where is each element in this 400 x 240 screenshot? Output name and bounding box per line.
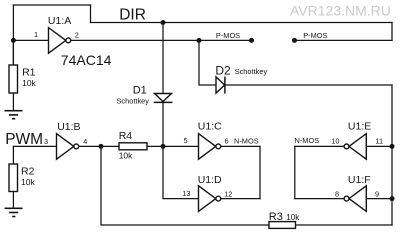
wire D2 cathode to right rail: [225, 84, 392, 86]
svg-text:U1:B: U1:B: [57, 121, 80, 133]
svg-text:U1:C: U1:C: [198, 121, 222, 133]
svg-text:10k: 10k: [21, 177, 35, 187]
wire R2 top drop: [12, 146, 14, 164]
wire R1 bottom to ground: [12, 93, 14, 111]
wire top-left horizontal: [13, 4, 90, 6]
resistor R4 body: [119, 143, 147, 150]
svg-text:N-MOS: N-MOS: [295, 136, 320, 145]
wire D2 drop from P-MOS node: [199, 40, 216, 85]
svg-text:6: 6: [225, 136, 229, 145]
wire R3 drop from U1:B output node: [101, 146, 269, 225]
node dot DIR / D1: [161, 20, 166, 25]
svg-text:74AC14: 74AC14: [61, 52, 112, 68]
inverter U1:F pins 9-8 mirrored: [349, 186, 366, 212]
svg-text:R4: R4: [119, 130, 133, 142]
node dot R4 / D1 / U1:D: [161, 144, 166, 149]
wire R1 top: [12, 40, 14, 65]
svg-text:N-MOS: N-MOS: [234, 136, 259, 145]
svg-text:12: 12: [224, 190, 232, 199]
inverter U1:D pins 13-12: [199, 186, 216, 212]
wire N-MOS to U1:E input: [295, 145, 344, 147]
wire PWM input to U1:B: [13, 145, 56, 147]
svg-text:4: 4: [83, 137, 87, 146]
svg-text:5: 5: [183, 136, 187, 145]
svg-text:R3: R3: [269, 211, 283, 223]
wire left rail vertical: [12, 5, 14, 65]
svg-text:U1:D: U1:D: [198, 174, 222, 186]
node dot rail U1:F: [390, 196, 395, 201]
node dot P-MOS right terminal: [292, 38, 297, 43]
svg-text:2: 2: [75, 31, 79, 40]
wire U1:F right to rail: [366, 198, 392, 200]
svg-text:U1:A: U1:A: [48, 15, 71, 27]
svg-text:10k: 10k: [119, 151, 133, 161]
wire U1:A output / P-MOS left segment: [71, 39, 252, 41]
node dot U1:B output: [99, 144, 104, 149]
node dot P-MOS left terminal: [249, 38, 254, 43]
wire E-F input tie vertical: [294, 146, 296, 198]
svg-text:PWM: PWM: [5, 131, 43, 148]
inverter U1:B pins 3-4: [57, 134, 74, 160]
diode D2 cathode bar: [224, 77, 226, 94]
diode D2 triangle: [216, 77, 225, 93]
inverter U1:A (74AC14) pins 1-2: [49, 28, 66, 54]
inverter U1:E pins 11-10 mirrored: [349, 134, 366, 160]
svg-text:U1:F: U1:F: [348, 174, 371, 186]
diode D1 triangle: [155, 94, 172, 102]
svg-text:D1: D1: [133, 84, 147, 96]
svg-text:10: 10: [331, 137, 339, 146]
ground below R1: [5, 110, 23, 112]
svg-text:11: 11: [376, 137, 384, 146]
wire R4 to U1:C input: [147, 145, 199, 147]
wire to U1:F input: [295, 198, 344, 200]
wire D1 cathode down to node and U1:D input: [163, 102, 199, 198]
svg-text:AVR123.NM.RU: AVR123.NM.RU: [290, 3, 391, 19]
svg-text:10k: 10k: [286, 213, 300, 222]
svg-text:R1: R1: [22, 67, 36, 79]
svg-text:8: 8: [335, 190, 339, 199]
ground below R2: [5, 208, 23, 210]
wire P-MOS right segment: [295, 39, 393, 41]
wire U1:E right to rail: [366, 145, 392, 147]
wire right rail vertical: [391, 85, 393, 225]
node dot P-MOS / D2: [197, 38, 202, 43]
svg-text:DIR: DIR: [119, 7, 146, 24]
wire U1:C output: [221, 145, 260, 147]
svg-text:Schottkey: Schottkey: [117, 97, 150, 106]
wire C-D output tie vertical: [259, 146, 261, 198]
wire right top vertical DIR to P-MOS: [391, 23, 393, 41]
svg-text:10k: 10k: [22, 78, 36, 88]
wire U1:A input: [13, 39, 48, 41]
node dot left rail U1:A input: [11, 38, 16, 43]
wire R2 bottom to ground: [12, 192, 14, 209]
inverter U1:C pins 5-6: [199, 134, 216, 160]
svg-text:Schottkey: Schottkey: [235, 67, 268, 76]
svg-text:P-MOS: P-MOS: [216, 31, 240, 40]
resistor R2 body: [9, 164, 18, 192]
svg-text:1: 1: [34, 30, 38, 39]
wire U1:B output to R4: [79, 145, 119, 147]
svg-text:13: 13: [182, 189, 190, 198]
svg-text:P-MOS: P-MOS: [303, 31, 327, 40]
svg-text:D2: D2: [215, 64, 231, 78]
svg-text:9: 9: [375, 190, 379, 199]
node dot rail U1:E: [390, 144, 395, 149]
wire U1:D output: [221, 198, 260, 200]
diode D1 cathode bar: [154, 101, 173, 103]
wire DIR to D1 anode: [162, 23, 164, 94]
wire DIR net horizontal: [91, 22, 393, 24]
svg-text:R2: R2: [21, 166, 35, 178]
resistor R1 body: [9, 65, 18, 93]
svg-text:3: 3: [44, 137, 48, 146]
svg-text:U1:E: U1:E: [348, 120, 371, 132]
wire R3 right to rail: [296, 224, 393, 226]
resistor R3 body: [269, 222, 296, 229]
wire top step vertical: [90, 5, 92, 23]
